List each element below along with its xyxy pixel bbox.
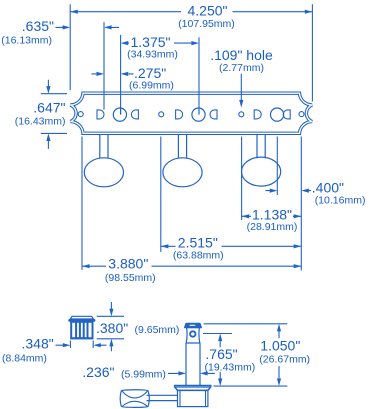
shaft xyxy=(186,343,200,386)
svg-text:.765": .765" xyxy=(205,346,237,362)
reverse D hole 3 xyxy=(283,110,290,119)
D hole 2 xyxy=(176,110,183,119)
extension lines below plate xyxy=(81,137,83,270)
svg-text:(5.99mm): (5.99mm) xyxy=(121,368,166,380)
flange (plate cross-section) xyxy=(175,386,211,391)
dim .647 xyxy=(15,80,67,149)
screw hole right tab xyxy=(299,112,304,117)
svg-text:4.250": 4.250" xyxy=(187,3,227,19)
svg-text:.635": .635" xyxy=(22,18,54,34)
svg-text:(6.99mm): (6.99mm) xyxy=(129,79,174,91)
dim 1.375 xyxy=(121,34,199,115)
knob shaft xyxy=(147,395,179,400)
string hole xyxy=(190,331,195,336)
dim .400 xyxy=(266,179,366,206)
post center lines through plate xyxy=(121,108,199,115)
dim 1.138 xyxy=(242,207,302,233)
post hole 2 xyxy=(192,108,205,121)
dim .275 xyxy=(92,65,174,91)
dim .380 xyxy=(96,302,179,351)
dim .765 xyxy=(203,334,255,387)
dim 4.250 xyxy=(70,3,312,102)
svg-text:2.515": 2.515" xyxy=(178,234,218,250)
bushing xyxy=(68,316,95,339)
label .109 hole xyxy=(210,47,273,108)
svg-text:(16.13mm): (16.13mm) xyxy=(1,35,52,47)
svg-text:(28.91mm): (28.91mm) xyxy=(247,221,298,233)
svg-text:3.880": 3.880" xyxy=(108,255,148,271)
post head xyxy=(186,328,200,344)
stems and buttons xyxy=(84,134,280,187)
svg-text:(34.93mm): (34.93mm) xyxy=(127,49,178,61)
D hole 3 xyxy=(254,110,261,119)
tuner side view xyxy=(120,324,211,408)
svg-text:(19.43mm): (19.43mm) xyxy=(205,361,256,373)
dim 3.880 xyxy=(82,255,301,284)
svg-text:(16.43mm): (16.43mm) xyxy=(15,115,66,127)
svg-text:(9.65mm): (9.65mm) xyxy=(135,324,180,336)
svg-text:.400": .400" xyxy=(312,179,344,195)
screw hole left tab xyxy=(78,112,83,117)
svg-text:(26.67mm): (26.67mm) xyxy=(259,353,310,365)
reverse D hole 2 xyxy=(210,110,217,119)
post hole 1 xyxy=(113,108,126,121)
svg-text:.236": .236" xyxy=(82,364,114,380)
svg-text:(2.77mm): (2.77mm) xyxy=(219,62,264,74)
screw hole mid 1 xyxy=(159,112,164,117)
dim .236 xyxy=(82,364,215,380)
post hole 3 xyxy=(271,108,284,121)
dim .635 xyxy=(1,18,119,110)
housing box xyxy=(178,390,208,406)
svg-text:1.375": 1.375" xyxy=(130,34,170,50)
button xyxy=(120,390,149,408)
svg-text:.109" hole: .109" hole xyxy=(210,47,273,63)
svg-text:(98.55mm): (98.55mm) xyxy=(105,272,156,284)
svg-text:.647": .647" xyxy=(33,100,65,116)
svg-text:(107.95mm): (107.95mm) xyxy=(178,18,235,30)
plate outline (double line) xyxy=(70,93,312,133)
svg-text:(8.84mm): (8.84mm) xyxy=(2,353,47,365)
reverse D hole 1 xyxy=(131,110,138,119)
dim 2.515 xyxy=(161,234,301,261)
D hole 1 xyxy=(97,110,104,119)
svg-text:(10.16mm): (10.16mm) xyxy=(315,195,366,207)
dim 1.050 xyxy=(204,324,310,386)
dim .348 xyxy=(2,335,107,364)
svg-text:1.050": 1.050" xyxy=(260,338,300,354)
svg-text:.380": .380" xyxy=(96,320,128,336)
svg-text:.348": .348" xyxy=(22,335,54,351)
screw hole mid 2 (.109 hole) xyxy=(239,112,244,117)
svg-text:(63.88mm): (63.88mm) xyxy=(173,250,224,262)
